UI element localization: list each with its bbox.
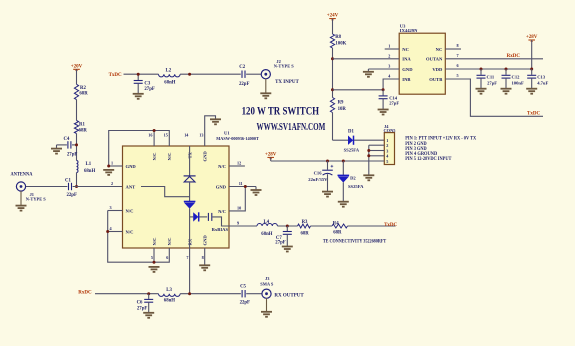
resistor R1 [74,121,78,134]
capacitor C1 [69,183,72,190]
wire [20,191,22,205]
svg-text:27pF: 27pF [389,101,399,106]
capacitor C13 [531,69,533,75]
node junction [137,73,140,76]
ground [261,312,272,317]
wire [332,48,334,98]
svg-text:5: 5 [386,159,388,164]
svg-text:RxDC: RxDC [507,54,521,59]
svg-text:6: 6 [166,255,168,260]
svg-text:SS25FA: SS25FA [344,148,360,153]
wire U3 pin8 stub [445,48,461,50]
wire [76,173,78,187]
svg-text:22uF/35V: 22uF/35V [308,177,328,182]
U1 internal wire TX [189,146,191,176]
ground [51,149,62,154]
svg-text:N/C: N/C [218,209,226,214]
svg-text:RxDC: RxDC [78,291,92,296]
svg-text:N/C: N/C [152,153,157,161]
svg-text:4.7uF: 4.7uF [537,81,548,86]
svg-text:8: 8 [202,255,204,260]
wire [76,69,78,84]
wire CON5 pin5 supply rail [271,160,385,162]
op-amp U3 IX4429N body [399,33,445,94]
wire [76,100,78,121]
connector J1 ANTENNA [16,182,25,191]
wire [266,298,268,311]
diode D1 [348,136,352,144]
svg-text:120 W TR SWITCH: 120 W TR SWITCH [242,105,320,117]
svg-text:68nH: 68nH [84,169,95,174]
svg-text:27pF: 27pF [275,241,285,246]
svg-text:C6: C6 [137,300,143,305]
wire [348,225,396,227]
resistor R9 [330,98,334,113]
resistor R8 [330,34,334,48]
node junction [342,160,345,163]
svg-text:N/C: N/C [218,164,226,169]
svg-text:U1: U1 [224,130,230,135]
svg-text:PIN 5 12-28VDC INPUT: PIN 5 12-28VDC INPUT [405,157,452,162]
node junction [153,261,156,264]
wire [277,225,297,227]
svg-text:VDD: VDD [432,67,443,72]
node junction [480,68,483,71]
wire pin7 RX [189,248,191,294]
wire [265,79,267,93]
svg-text:16: 16 [148,133,152,138]
svg-text:C2: C2 [239,65,245,70]
svg-text:R1: R1 [79,123,85,128]
svg-text:8: 8 [457,43,459,48]
ground [251,190,262,195]
ground [526,89,537,94]
node junction [367,154,370,157]
svg-text:R9: R9 [338,101,344,106]
svg-text:WWW.SV1AFN.COM: WWW.SV1AFN.COM [257,122,326,133]
inductor L4 [257,223,277,226]
capacitor C5 [242,290,245,297]
svg-text:68R: 68R [333,230,342,235]
svg-text:R8: R8 [335,35,341,40]
capacitor C2 [242,71,245,78]
svg-text:2: 2 [386,143,388,148]
capacitor C3 [137,74,139,80]
svg-text:2: 2 [388,53,390,58]
wire [95,293,159,295]
svg-text:RxBIAS: RxBIAS [212,227,229,232]
U1 internal diode top [184,175,196,177]
wire [332,113,334,141]
svg-text:10R: 10R [338,107,347,112]
wire [124,73,159,75]
resistor R3 [298,224,311,228]
svg-text:3: 3 [386,148,388,153]
svg-text:ANT: ANT [126,185,136,190]
svg-text:N/C: N/C [126,230,134,235]
node junction [75,185,78,188]
svg-text:L2: L2 [166,69,172,74]
capacitor C16 [327,161,329,170]
wire pin8 ground [204,248,206,265]
svg-text:7: 7 [186,255,188,260]
svg-text:SS25FA: SS25FA [348,184,364,189]
node junction [367,149,370,152]
svg-text:R2: R2 [80,86,86,91]
svg-text:IX4429N: IX4429N [400,28,418,33]
wire [246,293,261,295]
node junction [188,292,191,295]
svg-text:C12: C12 [512,74,521,79]
svg-text:L1: L1 [86,162,92,167]
ground [476,89,487,94]
svg-text:12: 12 [237,160,241,165]
ground [282,247,293,252]
ground [322,192,333,197]
U1 internal diode bottom [184,200,196,202]
wire [26,186,68,188]
svg-text:5: 5 [151,255,153,260]
node junction [153,129,156,132]
svg-text:C11: C11 [487,74,495,79]
wire [246,73,261,75]
wire U3 pin5 OUTB TxDC [445,79,543,116]
svg-text:OUTB: OUTB [429,77,442,82]
svg-text:INB: INB [402,77,410,82]
node junction [106,230,109,233]
svg-text:N/C: N/C [167,153,172,161]
wire pin1 stub [109,165,123,167]
svg-text:+24V: +24V [327,14,339,19]
svg-text:N/C: N/C [152,238,157,246]
wire pin13 ground [205,116,216,146]
node junction [244,185,247,188]
ground [133,94,144,99]
svg-text:TE CONNECTIVITY 3522680RFT: TE CONNECTIVITY 3522680RFT [323,240,387,245]
node junction [147,292,150,295]
svg-text:100nF: 100nF [512,81,524,86]
ground [363,175,374,180]
svg-text:R3: R3 [302,220,308,225]
node junction [505,68,508,71]
wire [73,186,123,188]
ground [501,89,512,94]
wire pin11 pin10 ground [229,186,256,188]
ground [338,202,349,207]
svg-text:PIN 1: PTT INPUT +12V RX - 0V: PIN 1: PTT INPUT +12V RX - 0V TX [405,137,477,142]
ground [378,110,389,115]
node junction [75,143,78,146]
svg-text:27pF: 27pF [67,152,77,157]
node junction [331,57,334,60]
svg-text:C3: C3 [144,81,150,86]
wire pin9 [229,225,257,227]
capacitor C12 [505,69,507,75]
svg-text:68R: 68R [79,92,88,97]
svg-text:C16: C16 [314,171,323,176]
svg-text:68nH: 68nH [164,80,175,85]
svg-text:TxDC: TxDC [527,112,540,117]
svg-text:TX INPUT: TX INPUT [275,80,299,85]
svg-text:GND: GND [126,164,137,169]
capacitor C7 [286,226,288,231]
svg-text:D1: D1 [348,130,354,135]
svg-text:10: 10 [237,205,241,210]
svg-text:SMA S: SMA S [260,281,274,286]
node junction [530,68,533,71]
wire [180,73,241,75]
svg-text:C5: C5 [240,285,246,290]
svg-text:N-TYPE S: N-TYPE S [274,64,294,69]
svg-text:22pF: 22pF [239,82,249,87]
svg-text:R4: R4 [333,221,339,226]
U1 internal ANT path [141,187,190,197]
node junction [107,165,110,168]
svg-text:1: 1 [111,161,113,166]
svg-text:2: 2 [111,181,113,186]
svg-text:1: 1 [388,44,390,49]
capacitor C14 [382,90,384,96]
wire [354,139,384,141]
U1 internal wire RX [189,208,191,248]
inductor L1 [77,161,79,173]
svg-text:68nH: 68nH [164,299,175,304]
svg-text:INA: INA [402,57,411,62]
svg-text:CON5: CON5 [384,128,397,133]
capacitor C6 [148,294,150,299]
svg-text:C4: C4 [64,137,70,142]
wire [180,293,241,295]
svg-text:9: 9 [237,220,239,225]
svg-text:D2: D2 [350,175,356,180]
wire U3 pin4 INB [333,79,400,90]
svg-text:6: 6 [457,63,459,68]
svg-text:27pF: 27pF [137,307,147,312]
wire C4 branch [72,144,77,146]
svg-text:GND: GND [202,235,207,246]
svg-text:3: 3 [110,205,112,210]
svg-text:NC: NC [402,47,409,52]
svg-text:OUTAN: OUTAN [426,57,443,62]
wire [76,134,78,161]
svg-text:27pF: 27pF [144,87,154,92]
wire pins 16 15 tie [109,131,170,167]
wire pins 3 4 5 6 tie [108,210,123,212]
wire [531,40,533,69]
svg-text:22pF: 22pF [240,300,250,305]
svg-text:L3: L3 [166,288,172,293]
svg-text:7: 7 [457,53,459,58]
wire [311,225,333,227]
svg-text:C13: C13 [537,74,546,79]
diode D2 [342,161,344,175]
U1 internal wire [189,182,191,201]
svg-text:22pF: 22pF [67,193,77,198]
svg-text:27pF: 27pF [487,81,497,86]
node junction [188,73,191,76]
svg-text:GND: GND [216,185,227,190]
svg-text:GND: GND [202,151,207,162]
U1 internal shunt diode [190,216,194,218]
connector J2 TX INPUT [261,70,270,79]
node junction [382,88,385,91]
svg-text:RX OUTPUT: RX OUTPUT [274,293,304,298]
svg-text:3: 3 [388,64,390,69]
svg-text:L4: L4 [264,220,270,225]
capacitor C4 [68,141,71,148]
ground [199,265,210,270]
inductor L3 [159,294,181,297]
ground [16,206,27,211]
resistor R2 [74,84,78,99]
connector J4 CON5 body [384,133,394,165]
svg-text:N/C: N/C [167,238,172,246]
svg-text:ANTENNA: ANTENNA [11,173,33,178]
U1 internal capacitor [200,216,208,218]
ground [143,313,154,318]
wire U3 pin6 VDD rail [445,68,531,70]
wire pin12 stub [229,165,245,167]
svg-text:MASW-000936-14000T: MASW-000936-14000T [216,136,259,141]
node junction [286,225,289,228]
svg-text:11: 11 [239,181,243,186]
wire CON5 pin2 3 4 ground [369,144,385,146]
wire U3 pin7 OUTAN RxDC [445,58,543,60]
svg-text:15: 15 [164,133,168,138]
svg-text:N/C: N/C [126,209,134,214]
node junction [331,88,334,91]
op-amp U1 MASW-000936-14000T body [123,146,230,248]
wire U3 pin1 stub [385,48,400,50]
svg-text:TxDC: TxDC [109,73,122,78]
node junction [326,160,329,163]
svg-text:68nH: 68nH [261,232,272,237]
svg-text:+28V: +28V [526,35,538,40]
ground [363,72,374,77]
wire [332,19,334,34]
ground [103,170,114,175]
svg-text:C1: C1 [65,179,71,184]
svg-text:68R: 68R [79,128,88,133]
U1 internal wire to RxBIAS [212,217,229,226]
ground [149,267,160,272]
wire U3 pin2 INA [333,58,400,60]
svg-text:5: 5 [457,73,459,78]
inductor L2 [159,74,181,77]
svg-text:TxDC: TxDC [384,223,397,228]
wire [270,157,272,161]
ground [210,119,221,124]
svg-text:+28V: +28V [265,152,277,157]
svg-text:13: 13 [199,133,203,138]
svg-text:N-TYPE S: N-TYPE S [26,197,46,202]
capacitor C11 [480,69,482,75]
svg-text:GND: GND [402,67,413,72]
connector J3 RX OUTPUT [262,289,271,298]
svg-text:100K: 100K [335,41,346,46]
ground [260,93,271,98]
resistor R4 [332,224,348,228]
wire U3 pin3 GND [368,68,399,70]
svg-text:NC: NC [436,47,443,52]
svg-text:+20V: +20V [71,64,83,69]
svg-text:68R: 68R [301,231,310,236]
